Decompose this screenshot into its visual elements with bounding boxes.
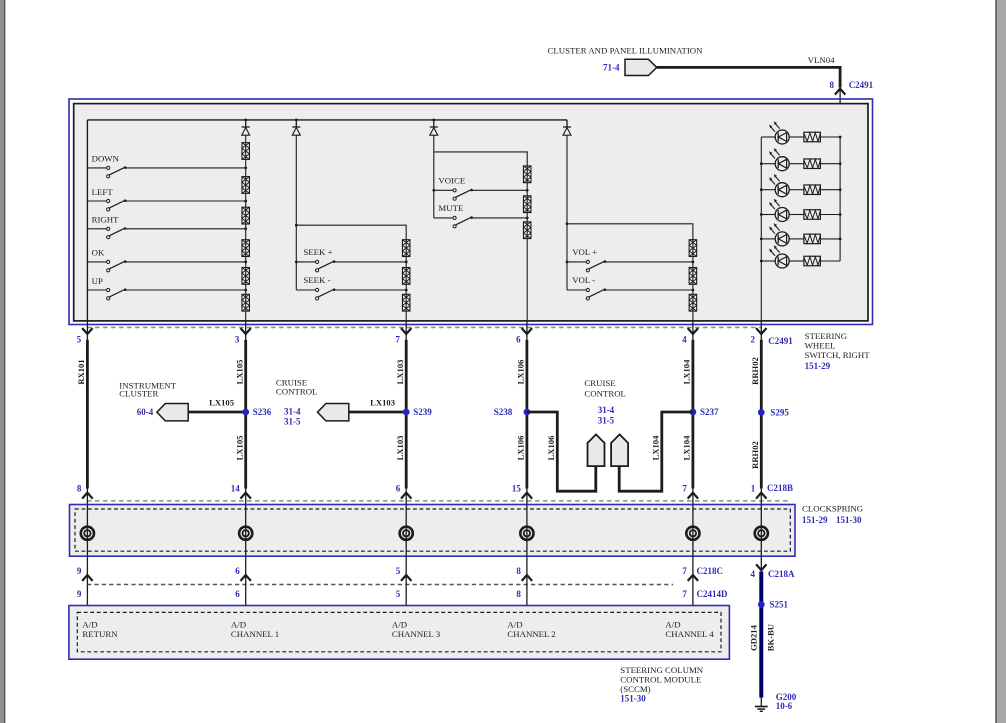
- svg-text:C218C: C218C: [697, 566, 724, 576]
- resistor keypad R5: [242, 268, 250, 285]
- wire vol- row: [605, 289, 693, 291]
- svg-text:31-4: 31-4: [598, 405, 615, 415]
- wire R1 to right bus: [820, 136, 840, 138]
- svg-text:MUTE: MUTE: [438, 203, 463, 213]
- switch VOL +: [567, 261, 586, 263]
- wire S238 branch: [527, 412, 596, 491]
- steering wheel switch box outer border: [69, 99, 873, 325]
- switch VOL -: [567, 289, 586, 291]
- pin 5 C2491: [86, 321, 88, 340]
- svg-text:CLOCKSPRING: CLOCKSPRING: [802, 504, 864, 514]
- svg-text:RIGHT: RIGHT: [92, 215, 120, 225]
- svg-text:LX106: LX106: [516, 359, 526, 385]
- svg-text:6: 6: [235, 566, 240, 576]
- resistor chain wire (keypad): [245, 135, 247, 321]
- svg-text:8: 8: [516, 566, 521, 576]
- clockspring wire col 3: [405, 505, 407, 557]
- resistor voice R2: [523, 196, 531, 213]
- pin 7 C218C: [692, 556, 694, 612]
- svg-text:5: 5: [396, 589, 401, 599]
- resistor volume R1: [689, 240, 697, 257]
- svg-text:1: 1: [751, 483, 756, 493]
- svg-text:151-29: 151-29: [805, 361, 831, 371]
- connector C2491 dashed line: [87, 327, 762, 329]
- node rail-D3: [432, 119, 435, 122]
- wire R2 to right bus: [820, 163, 840, 165]
- resistor LED R5: [804, 234, 821, 244]
- pin 2 C2491: [760, 321, 762, 340]
- svg-text:BK-BU: BK-BU: [766, 624, 776, 651]
- svg-text:10-6: 10-6: [776, 701, 793, 711]
- wire LED2 to resistor: [789, 163, 804, 165]
- clockspring wire col 2: [245, 505, 247, 557]
- pin 6 C2491: [526, 321, 528, 340]
- clockspring coil 3: [400, 527, 413, 540]
- resistor LED R6: [804, 256, 821, 266]
- resistor volume R2: [689, 268, 697, 285]
- svg-text:SWITCH, RIGHT: SWITCH, RIGHT: [805, 350, 871, 360]
- clockspring wire col 4: [526, 505, 528, 557]
- svg-text:LX103: LX103: [395, 436, 405, 461]
- switch VOICE: [434, 189, 453, 191]
- svg-text:CRUISE: CRUISE: [584, 378, 615, 388]
- svg-text:31-5: 31-5: [284, 417, 301, 427]
- svg-text:151-30: 151-30: [836, 515, 862, 525]
- svg-text:7: 7: [682, 483, 687, 493]
- svg-text:VLN04: VLN04: [808, 55, 835, 65]
- svg-text:LX104: LX104: [682, 359, 692, 385]
- svg-text:UP: UP: [92, 276, 103, 286]
- splice S251: [758, 601, 765, 608]
- switch SEEK -: [296, 289, 315, 291]
- wire seek+ row: [334, 261, 406, 263]
- svg-text:CONTROL: CONTROL: [584, 389, 626, 399]
- svg-text:31-5: 31-5: [598, 416, 615, 426]
- diode D3 (voice branch): [433, 120, 435, 127]
- wire DOWN to resistor chain: [125, 167, 246, 169]
- diode D4 (volume branch): [566, 120, 568, 127]
- svg-text:LX106: LX106: [516, 435, 526, 461]
- pin 14 C218B: [245, 489, 247, 505]
- seek branch bus: [295, 135, 297, 290]
- resistor voice R1: [523, 166, 531, 183]
- svg-text:A/D: A/D: [82, 619, 97, 629]
- pin 6 C218B: [405, 489, 407, 505]
- resistor volume R3: [689, 294, 697, 311]
- LED 1: [761, 136, 775, 138]
- node keypad row 3: [244, 227, 247, 230]
- connector C218C dashed line: [87, 584, 673, 586]
- svg-text:S236: S236: [253, 407, 272, 417]
- svg-text:2: 2: [751, 335, 756, 345]
- resistor LED R2: [804, 159, 821, 169]
- wire LX105 to S236: [188, 411, 246, 414]
- pin 4 connector C218A: [760, 556, 762, 570]
- switch OK: [87, 261, 106, 263]
- voice branch bus: [433, 135, 435, 218]
- clockspring wire col 1: [86, 505, 88, 557]
- svg-text:VOICE: VOICE: [438, 175, 465, 185]
- svg-text:GD214: GD214: [748, 624, 758, 650]
- wire LED6 to resistor: [789, 260, 804, 262]
- wire LX105: [244, 340, 247, 489]
- wire R6 to right bus: [820, 260, 840, 262]
- clockspring wire col 5: [692, 505, 694, 557]
- wire vol+ row: [605, 261, 693, 263]
- svg-text:4: 4: [682, 335, 687, 345]
- splice S236: [242, 409, 249, 416]
- svg-text:RRH02: RRH02: [750, 441, 760, 469]
- pin 3 C2491: [245, 321, 247, 340]
- steering wheel switch box inner border: [74, 104, 868, 321]
- node keypad row 2: [244, 200, 247, 203]
- node vol branch: [566, 222, 569, 225]
- wire S237 branch: [619, 412, 693, 491]
- pin 8 C218C: [526, 556, 528, 612]
- svg-text:7: 7: [682, 589, 687, 599]
- bus rail (top): [87, 119, 567, 121]
- svg-text:LEFT: LEFT: [92, 187, 114, 197]
- svg-text:C218B: C218B: [767, 483, 793, 493]
- pin 8 C218B: [86, 489, 88, 505]
- wire voice top branch: [434, 152, 527, 166]
- page left gray band: [0, 0, 4, 723]
- svg-text:LX106: LX106: [546, 435, 556, 461]
- svg-text:A/D: A/D: [231, 619, 246, 629]
- LED left bus: [760, 137, 762, 321]
- wire LED3 to resistor: [789, 189, 804, 191]
- svg-text:6: 6: [396, 483, 401, 493]
- svg-text:STEERING COLUMN: STEERING COLUMN: [620, 665, 703, 675]
- svg-text:LX105: LX105: [235, 436, 245, 461]
- wire seek- row: [334, 289, 406, 291]
- wire RX101: [86, 340, 89, 489]
- pin 15 C218B: [526, 489, 528, 505]
- svg-text:S237: S237: [700, 407, 719, 417]
- node seek+: [295, 261, 298, 264]
- node keypad row 4: [244, 261, 247, 264]
- ground G200: [760, 698, 762, 707]
- wire GD214 BK-BU: [759, 572, 763, 698]
- node voice: [432, 189, 435, 192]
- wire R4 to right bus: [820, 214, 840, 216]
- LED right bus: [839, 137, 841, 261]
- resistor keypad R1: [242, 143, 250, 160]
- wire UP to resistor chain: [125, 289, 246, 291]
- page right gray band: [995, 0, 997, 723]
- LED 6: [761, 260, 775, 262]
- svg-text:5: 5: [77, 335, 82, 345]
- svg-text:14: 14: [231, 483, 241, 493]
- svg-text:RRH02: RRH02: [750, 357, 760, 385]
- wire R3 to right bus: [820, 189, 840, 191]
- wire LED1 to resistor: [789, 136, 804, 138]
- clockspring dashed border: [75, 509, 790, 551]
- wire LED5 to resistor: [789, 238, 804, 240]
- seek resistor chain wire: [405, 240, 407, 321]
- pin 8 connector C2491 (top): [835, 89, 845, 95]
- wire LEFT to resistor chain: [125, 200, 246, 202]
- node rail-D1: [244, 119, 247, 122]
- svg-text:C2491: C2491: [849, 80, 874, 90]
- connector C218B dashed line: [87, 500, 791, 502]
- resistor keypad R2: [242, 177, 250, 194]
- clockspring coil 6: [755, 527, 768, 540]
- resistor voice R3: [523, 222, 531, 239]
- resistor keypad R4: [242, 240, 250, 257]
- svg-text:STEERING: STEERING: [805, 331, 848, 341]
- resistor keypad R6: [242, 294, 250, 311]
- voice resistor chain wire: [526, 166, 528, 321]
- svg-text:7: 7: [682, 566, 687, 576]
- diode D1 (keypad column): [245, 120, 247, 127]
- resistor seek R1: [402, 240, 410, 257]
- svg-text:CHANNEL 1: CHANNEL 1: [231, 629, 279, 639]
- switch SEEK +: [296, 261, 315, 263]
- off-page connector down-left: [588, 434, 605, 466]
- svg-text:LX103: LX103: [395, 360, 405, 385]
- svg-text:C2491: C2491: [768, 336, 793, 346]
- node keypad row 1: [244, 167, 247, 170]
- wire LX104: [692, 340, 695, 489]
- splice S295: [758, 409, 765, 416]
- svg-text:OK: OK: [92, 248, 105, 258]
- svg-text:LX104: LX104: [682, 435, 692, 461]
- svg-text:SEEK +: SEEK +: [303, 247, 332, 257]
- svg-text:4: 4: [751, 569, 756, 579]
- clockspring coil 5: [686, 527, 699, 540]
- wire LED4 to resistor: [789, 214, 804, 216]
- svg-text:6: 6: [516, 335, 521, 345]
- splice S239: [403, 409, 410, 416]
- resistor LED R3: [804, 185, 821, 195]
- volume resistor chain wire: [692, 240, 694, 321]
- svg-text:A/D: A/D: [665, 619, 680, 629]
- switch RIGHT: [87, 228, 106, 230]
- wire R5 to right bus: [820, 238, 840, 240]
- svg-text:7: 7: [395, 335, 400, 345]
- svg-text:CHANNEL 2: CHANNEL 2: [507, 629, 555, 639]
- wire LX103: [405, 340, 408, 489]
- SCCM dashed border: [77, 612, 721, 651]
- volume branch bus: [566, 135, 568, 290]
- LED 3: [761, 189, 775, 191]
- svg-text:CONTROL MODULE: CONTROL MODULE: [620, 675, 701, 685]
- LED 2: [761, 163, 775, 165]
- wire volume top branch: [567, 224, 693, 240]
- svg-text:S238: S238: [494, 407, 513, 417]
- svg-text:CHANNEL 4: CHANNEL 4: [665, 629, 714, 639]
- svg-text:S239: S239: [413, 407, 432, 417]
- pin 7 C218B: [692, 489, 694, 505]
- svg-text:8: 8: [516, 589, 521, 599]
- wire RRH02: [760, 340, 763, 489]
- node rail-D2: [295, 119, 298, 122]
- switch MUTE: [434, 217, 453, 219]
- clockspring wire col 6: [760, 505, 762, 557]
- pin 5 C218C: [405, 556, 407, 612]
- LED 4: [761, 214, 775, 216]
- svg-text:60-4: 60-4: [137, 407, 154, 417]
- off-page connector down-right: [611, 434, 628, 466]
- wire LX103 to S239: [349, 411, 406, 414]
- resistor LED R1: [804, 132, 821, 142]
- svg-text:WHEEL: WHEEL: [805, 341, 836, 351]
- clockspring box: [70, 505, 796, 557]
- svg-text:LX105: LX105: [235, 360, 245, 385]
- svg-text:CLUSTER: CLUSTER: [119, 389, 158, 399]
- clockspring coil 1: [81, 527, 94, 540]
- svg-text:8: 8: [830, 80, 835, 90]
- left bus wire: [86, 120, 88, 321]
- svg-text:151-29: 151-29: [802, 515, 828, 525]
- svg-text:LX103: LX103: [370, 398, 395, 408]
- svg-text:31-4: 31-4: [284, 406, 301, 416]
- svg-text:C218A: C218A: [768, 569, 795, 579]
- svg-text:15: 15: [512, 483, 522, 493]
- pin 7 C2491: [405, 321, 407, 340]
- wire mute row: [471, 217, 527, 219]
- wire LX106: [526, 340, 529, 489]
- svg-text:9: 9: [77, 566, 82, 576]
- splice S237: [690, 409, 697, 416]
- pin 9 C218C: [86, 556, 88, 612]
- resistor keypad R3: [242, 207, 250, 224]
- svg-text:CHANNEL 3: CHANNEL 3: [392, 629, 441, 639]
- resistor LED R4: [804, 210, 821, 220]
- node keypad row 5: [244, 289, 247, 292]
- wire seek top branch: [296, 225, 406, 240]
- wire OK to resistor chain: [125, 261, 246, 263]
- svg-text:9: 9: [77, 589, 82, 599]
- svg-text:CONTROL: CONTROL: [276, 387, 318, 397]
- pin 4 C2491: [692, 321, 694, 340]
- pin 6 C218C: [245, 556, 247, 612]
- svg-text:A/D: A/D: [392, 619, 407, 629]
- svg-text:8: 8: [77, 483, 82, 493]
- svg-text:5: 5: [396, 566, 401, 576]
- svg-text:LX105: LX105: [209, 398, 234, 408]
- switch LEFT: [87, 200, 106, 202]
- svg-text:S251: S251: [770, 600, 789, 610]
- svg-text:LX104: LX104: [651, 435, 661, 461]
- svg-text:S295: S295: [770, 408, 789, 418]
- node vol+: [566, 261, 569, 264]
- svg-text:151-30: 151-30: [620, 694, 646, 704]
- switch UP: [87, 289, 106, 291]
- svg-text:C2414D: C2414D: [697, 589, 728, 599]
- svg-text:SEEK -: SEEK -: [303, 275, 330, 285]
- svg-text:DOWN: DOWN: [92, 154, 120, 164]
- svg-text:VOL +: VOL +: [572, 247, 597, 257]
- node seek branch: [295, 224, 298, 227]
- wire VLN04: [657, 67, 840, 87]
- clockspring coil 2: [239, 527, 252, 540]
- resistor seek R3: [402, 294, 410, 311]
- wire voice row: [471, 189, 527, 191]
- svg-text:RX101: RX101: [76, 359, 86, 384]
- svg-text:3: 3: [235, 335, 240, 345]
- LED 5: [761, 238, 775, 240]
- pin 1 C218B: [760, 489, 762, 505]
- clockspring coil 4: [520, 527, 533, 540]
- resistor seek R2: [402, 268, 410, 285]
- diode D2 (seek branch): [295, 120, 297, 127]
- svg-text:71-4: 71-4: [603, 62, 620, 72]
- svg-text:A/D: A/D: [507, 619, 522, 629]
- svg-text:CLUSTER AND PANEL ILLUMINATION: CLUSTER AND PANEL ILLUMINATION: [548, 45, 704, 55]
- wire RIGHT to resistor chain: [125, 228, 246, 230]
- SCCM box: [69, 606, 730, 660]
- svg-text:6: 6: [235, 589, 240, 599]
- svg-text:VOL -: VOL -: [572, 275, 595, 285]
- switch DOWN: [87, 167, 106, 169]
- svg-text:RETURN: RETURN: [82, 629, 118, 639]
- off-page reference 31-4/31-5: [318, 404, 349, 421]
